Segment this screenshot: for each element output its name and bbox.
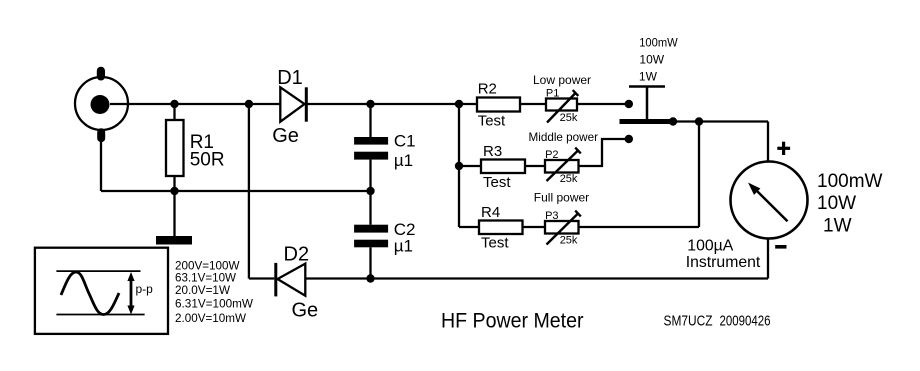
svg-text:HF Power Meter: HF Power Meter bbox=[441, 309, 584, 333]
svg-text:µ1: µ1 bbox=[394, 151, 413, 170]
svg-text:SM7UCZ: SM7UCZ bbox=[664, 313, 713, 330]
svg-text:Test: Test bbox=[483, 174, 511, 191]
svg-text:25k: 25k bbox=[560, 112, 578, 124]
svg-text:Middle power: Middle power bbox=[529, 130, 599, 144]
svg-text:P2: P2 bbox=[545, 149, 558, 161]
svg-text:C1: C1 bbox=[394, 132, 416, 151]
svg-text:Low power: Low power bbox=[533, 73, 591, 87]
svg-text:R3: R3 bbox=[483, 143, 502, 160]
svg-text:25k: 25k bbox=[560, 235, 578, 247]
svg-text:100mW: 100mW bbox=[639, 35, 678, 49]
svg-text:100µA: 100µA bbox=[687, 238, 733, 255]
svg-text:Full power: Full power bbox=[534, 191, 589, 205]
svg-text:µ1: µ1 bbox=[394, 236, 413, 255]
svg-text:100mW: 100mW bbox=[817, 171, 883, 192]
svg-text:2.00V=10mW: 2.00V=10mW bbox=[175, 312, 246, 325]
svg-text:20.0V=1W: 20.0V=1W bbox=[175, 284, 230, 297]
svg-text:P1: P1 bbox=[546, 88, 559, 100]
svg-text:R4: R4 bbox=[481, 204, 500, 221]
svg-text:Ge: Ge bbox=[272, 125, 299, 147]
svg-text:D1: D1 bbox=[277, 67, 303, 89]
svg-text:6.31V=100mW: 6.31V=100mW bbox=[175, 297, 253, 310]
svg-text:1W: 1W bbox=[823, 215, 852, 236]
svg-text:R2: R2 bbox=[478, 81, 497, 98]
svg-text:Test: Test bbox=[481, 235, 509, 252]
svg-text:P3: P3 bbox=[545, 210, 558, 222]
svg-text:1W: 1W bbox=[639, 69, 658, 83]
svg-text:63.1V=10W: 63.1V=10W bbox=[175, 272, 236, 285]
svg-text:Instrument: Instrument bbox=[686, 254, 761, 271]
svg-text:Ge: Ge bbox=[292, 300, 319, 322]
svg-text:Test: Test bbox=[478, 113, 506, 130]
svg-text:20090426: 20090426 bbox=[720, 313, 771, 330]
svg-text:D2: D2 bbox=[284, 243, 310, 265]
svg-text:200V=100W: 200V=100W bbox=[175, 259, 240, 272]
svg-text:10W: 10W bbox=[817, 193, 856, 214]
svg-text:p-p: p-p bbox=[136, 282, 154, 296]
svg-text:10W: 10W bbox=[639, 52, 664, 66]
svg-text:25k: 25k bbox=[560, 173, 578, 185]
svg-text:50R: 50R bbox=[190, 149, 225, 170]
